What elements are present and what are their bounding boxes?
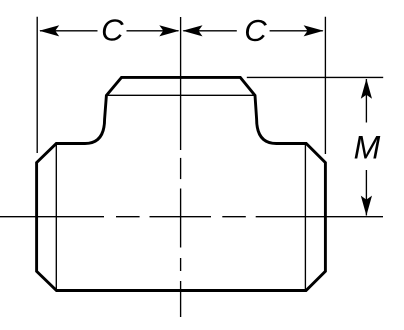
svg-text:C: C bbox=[101, 13, 124, 48]
svg-text:M: M bbox=[354, 130, 381, 166]
svg-text:C: C bbox=[244, 13, 267, 48]
